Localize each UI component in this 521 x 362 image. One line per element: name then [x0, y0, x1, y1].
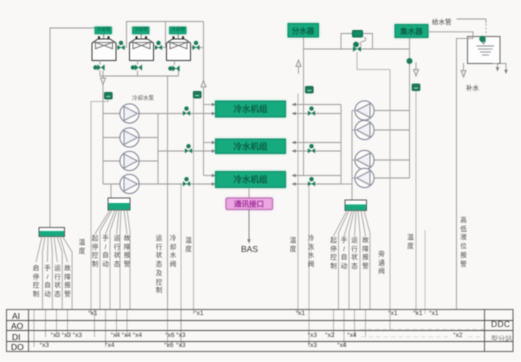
temperature sensor chilled return	[412, 84, 420, 91]
vertical label run status cooling pumps	[113, 235, 122, 270]
pump CWP2	[120, 128, 139, 147]
bottle fan group chilled pumps	[334, 211, 371, 310]
float valve on tank inlet	[479, 36, 485, 42]
vertical label chilled water valve	[307, 235, 316, 270]
valve chiller 1 condenser	[183, 106, 190, 115]
temperature sensor on cooling main	[104, 92, 112, 99]
svg-text:分水器: 分水器	[292, 26, 315, 36]
bypass actuator linkage	[360, 37, 366, 45]
vertical label start/stop chilled pumps	[329, 237, 338, 272]
AI point count markers	[88, 310, 97, 317]
table row label AI	[12, 311, 20, 321]
wire sensor to AI	[193, 98, 195, 314]
vertical label temperature chilled return	[406, 234, 415, 251]
vertical label fault alarm cooling pumps	[123, 235, 132, 270]
temperature sensor on cooling return	[193, 91, 201, 98]
valve chiller 1 evaporator	[308, 106, 315, 115]
svg-text:冷水机组: 冷水机组	[233, 104, 268, 114]
bottle fan group cooling pumps	[95, 210, 130, 309]
wire left control riser to tower fans	[50, 28, 95, 228]
vertical label start/stop control towers	[32, 265, 41, 300]
chiller unit 3	[216, 172, 286, 188]
label cooling water pumps 冷却水泵	[132, 94, 154, 102]
vertical label hand/auto cooling pumps	[101, 235, 110, 270]
vertical label run status towers	[53, 265, 62, 300]
junction box cooling towers	[39, 228, 65, 237]
vertical label fault alarm chilled pumps	[361, 237, 370, 272]
chiller unit 1	[216, 101, 286, 117]
vertical label bypass valve	[377, 251, 386, 277]
wire bypass valve to AO	[357, 52, 390, 330]
pump CHWP4	[355, 168, 374, 187]
pipe chilled supply riser	[303, 37, 305, 176]
flow arrow down on cooling main	[100, 71, 105, 85]
valve chiller 2 condenser	[185, 144, 192, 153]
svg-text:冷水机组: 冷水机组	[233, 175, 268, 185]
vertical label fault alarm towers	[63, 265, 72, 300]
table row label AO	[11, 321, 23, 331]
label cooling tower fan 冷却塔 group	[96, 27, 112, 33]
cooling tower CT1	[92, 27, 116, 61]
label makeup water 补水	[466, 82, 479, 92]
vertical label temperature chilled supply	[289, 237, 298, 254]
wire tank level to DI	[428, 32, 473, 309]
flow arrow up on cooling return riser	[201, 81, 206, 95]
label BAS	[241, 244, 258, 254]
junction box chilled pumps	[345, 200, 367, 211]
bypass motor valve actuator	[353, 31, 363, 38]
valve pair tower CT3 inlet	[191, 41, 204, 50]
flow arrow down makeup	[461, 63, 466, 77]
flow arrow up chilled supply	[296, 60, 301, 74]
pipe bypass line between headers	[304, 34, 410, 50]
vertical label chiller run status and control	[155, 235, 164, 296]
feed water pipe 给水管	[457, 19, 487, 35]
flow sensor on collector drop	[407, 58, 413, 64]
pipe condenser upper lines from riser	[204, 22, 216, 176]
vertical label run status chilled pumps	[350, 237, 359, 272]
chiller unit 2	[216, 139, 286, 154]
pump CHWP3	[355, 150, 374, 169]
pump CWP3	[120, 151, 139, 170]
vertical label start/stop cooling pumps	[91, 235, 100, 270]
tank drain pipes	[493, 64, 507, 74]
wire chilled valve bus to DO	[308, 186, 310, 347]
wire sensor to AI	[297, 94, 299, 315]
vertical label high/low level alarm	[459, 217, 468, 269]
pipe condenser lower lines to chillers	[158, 114, 216, 185]
header distributor 分水器	[288, 24, 319, 38]
vertical label temperature cooling return	[184, 237, 193, 254]
wire cooling valve bus to DO	[180, 184, 182, 347]
valve tower CT1 outlet	[93, 64, 104, 70]
valve pair tower CT1 inlet	[116, 41, 127, 50]
wire temp sensor to AI	[91, 99, 108, 314]
table row label DO	[11, 342, 24, 352]
svg-text:冷水机组: 冷水机组	[233, 142, 268, 152]
control wires into table	[34, 309, 366, 347]
valve chiller 2 evaporator	[308, 144, 315, 153]
pipe pump rungs right	[352, 38, 410, 201]
pipe evaporator lines right of chillers	[292, 105, 352, 185]
vertical label temperature cooling supply	[78, 239, 87, 256]
bypass valve body	[353, 42, 361, 52]
cooling tower CT3	[167, 27, 191, 61]
wire extra to AI	[424, 230, 426, 314]
table row label DI	[12, 332, 21, 342]
routing dashes in table	[360, 330, 484, 337]
valve tower CT3 outlet	[168, 65, 179, 71]
DI point count markers	[51, 332, 60, 339]
pump CWP1	[120, 104, 139, 123]
communication interface 通讯接口	[226, 188, 273, 244]
pump CWP4	[120, 174, 139, 193]
valve pair tower CT2 inlet	[154, 41, 166, 50]
wire top header to cooling towers	[127, 22, 204, 42]
DO point count markers	[40, 342, 49, 349]
svg-text:通讯接口: 通讯接口	[234, 199, 264, 209]
pipe pump suction rungs left	[103, 114, 158, 199]
junction box cooling pumps	[108, 198, 130, 210]
flow arrow down collector drop	[413, 62, 418, 76]
cooling tower CT2	[130, 27, 154, 61]
IO table	[7, 310, 514, 352]
svg-text:集水器: 集水器	[399, 26, 423, 36]
valve tower CT2 outlet	[131, 64, 142, 70]
valve chiller 3 evaporator	[308, 177, 315, 186]
valve chiller 3 condenser	[183, 177, 190, 186]
header collector 集水器	[395, 25, 428, 38]
pump CHWP2	[355, 120, 374, 139]
bottle fan group towers	[36, 237, 72, 310]
pump CHWP1	[355, 101, 374, 120]
DDC station label	[491, 319, 510, 329]
wire sensor to AI	[415, 91, 417, 314]
wire tower outlet stubs and header	[100, 61, 179, 77]
temperature sensor chilled supply	[305, 86, 313, 93]
makeup water tank 补水箱	[468, 37, 501, 64]
pipe cooling water main down-left	[103, 76, 168, 309]
vertical label hand/auto towers	[43, 265, 52, 300]
label feed pipe 给水管	[432, 16, 452, 26]
vertical label cooling water valve	[169, 235, 178, 270]
vertical label hand/auto chilled pumps	[340, 237, 349, 272]
